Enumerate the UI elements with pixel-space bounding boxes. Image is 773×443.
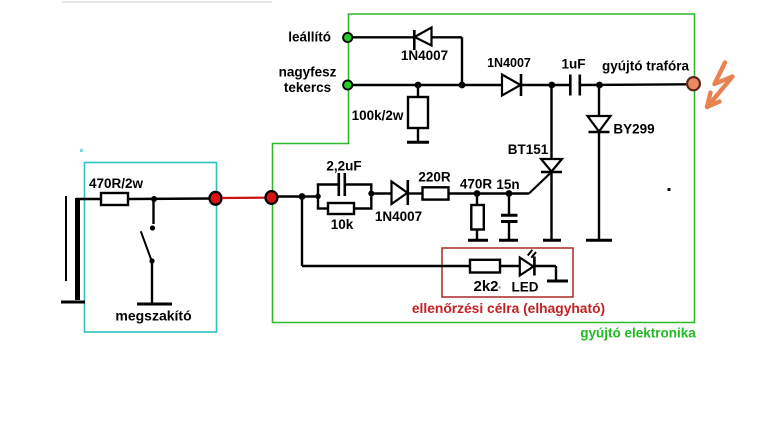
label nagyfesz tekercs (279, 65, 337, 96)
terminal green leállító (343, 33, 352, 42)
capacitor 1uF (570, 75, 580, 96)
wire gate diagonal (529, 172, 552, 194)
enclosure check circuit (red box) (442, 248, 573, 297)
node BT151 top (548, 82, 555, 89)
svg-text:1N4007: 1N4007 (487, 56, 531, 70)
svg-text:10k: 10k (331, 217, 354, 232)
svg-text:ellenőrzési célra (elhagyható): ellenőrzési célra (elhagyható) (412, 301, 605, 316)
diode 1N4007 right (502, 74, 521, 96)
node A (299, 193, 306, 200)
svg-text:megszakító: megszakító (115, 308, 191, 324)
node 470R (474, 190, 481, 197)
svg-text:nagyfesz: nagyfesz (279, 65, 337, 80)
svg-text:1N4007: 1N4007 (375, 209, 422, 224)
resistor 470R/2w (101, 193, 128, 205)
resistor 220R (423, 187, 449, 199)
svg-text:2,2uF: 2,2uF (326, 159, 361, 174)
wire terminal to node A (278, 195, 318, 197)
wire diode to corner (432, 37, 463, 85)
wire 2k2 to LED (500, 265, 520, 267)
thyristor BT151 (541, 85, 562, 240)
resistor 2k2 (470, 260, 500, 273)
ground under 15n (499, 239, 518, 242)
node 100k (415, 82, 422, 89)
battery / points symbol (61, 196, 85, 302)
terminal green nagyfesz (343, 80, 352, 89)
wire 220R to gate (449, 192, 530, 194)
terminal orange (687, 77, 700, 90)
switch megszakító (141, 199, 155, 303)
wire resistor to terminal (128, 197, 212, 200)
node 15n (506, 190, 513, 197)
resistor 10k (317, 203, 373, 214)
wire LED row (302, 265, 470, 267)
wire leállító to diode (352, 36, 414, 38)
speck cyan (80, 149, 83, 152)
wire nagyfesz rail (352, 84, 502, 86)
ground under BY299 (586, 239, 612, 242)
svg-text:470R: 470R (460, 177, 493, 192)
node corner join (459, 82, 466, 89)
svg-text:2k2: 2k2 (473, 278, 498, 295)
ground under 100k (407, 141, 429, 144)
svg-text:tekercs: tekercs (284, 80, 331, 95)
wire LED to ground (535, 266, 557, 280)
svg-text:BT151: BT151 (508, 142, 549, 157)
wire node A down (301, 197, 303, 267)
svg-text:470R/2w: 470R/2w (89, 176, 144, 191)
ground under switch (137, 303, 172, 306)
ground under 470R (468, 239, 488, 242)
ground under BT151 (543, 239, 561, 242)
svg-text:1N4007: 1N4007 (401, 48, 448, 63)
svg-text:220R: 220R (418, 170, 451, 185)
speck after 2k2 (499, 287, 501, 289)
diode LED (520, 250, 536, 276)
wire cap to terminal (581, 83, 688, 86)
diode 1N4007 mid (392, 180, 423, 205)
wire battery to resistor (76, 198, 101, 200)
resistor 470R vertical (471, 194, 484, 241)
resistor 100k/2w (408, 85, 428, 141)
diode BY299 (588, 85, 611, 240)
node BY299 top (596, 82, 603, 89)
parallel block 2,2uF / 10k (315, 184, 392, 209)
smudge top (62, 1, 272, 3)
ground under LED (547, 280, 568, 283)
wire diode to cap (521, 84, 569, 86)
icon lightning bolt (707, 63, 733, 108)
svg-text:15n: 15n (496, 177, 519, 192)
wire red link (222, 197, 266, 200)
svg-text:BY299: BY299 (613, 122, 654, 137)
terminal red right (266, 191, 278, 204)
terminal red left (210, 192, 222, 205)
svg-text:1uF: 1uF (561, 57, 585, 72)
svg-text:LED: LED (512, 280, 539, 295)
svg-text:100k/2w: 100k/2w (352, 108, 404, 123)
capacitor 15n (501, 194, 518, 241)
svg-text:gyújtó elektronika: gyújtó elektronika (580, 326, 696, 341)
svg-text:gyújtó trafóra: gyújtó trafóra (602, 59, 689, 74)
diode 1N4007 top (414, 28, 431, 51)
svg-text:leállító: leállító (288, 30, 331, 45)
capacitor 2,2uF (317, 173, 373, 196)
speck black right (668, 188, 671, 191)
node switch junction (151, 196, 157, 202)
enclosure gyújtó elektronika (green box) (273, 14, 695, 323)
enclosure megszakító (cyan box) (85, 163, 217, 333)
